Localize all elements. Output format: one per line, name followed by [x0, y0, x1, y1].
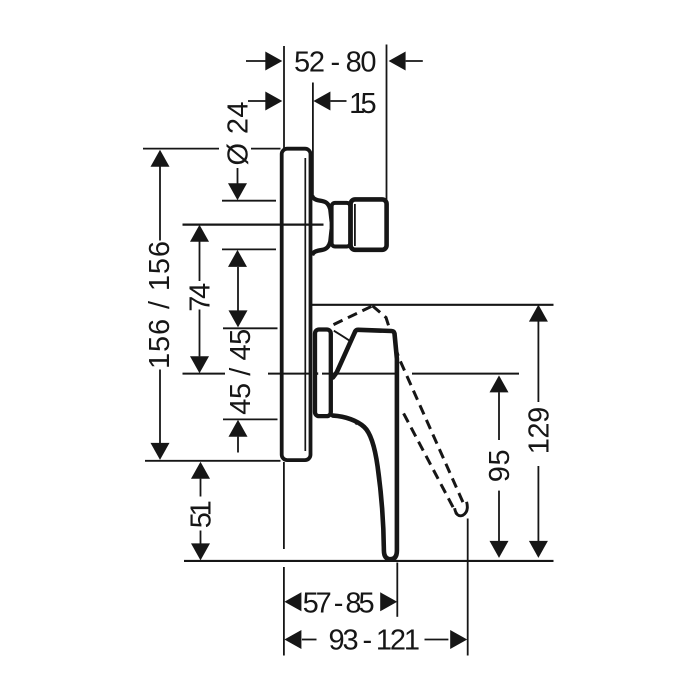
svg-text:74: 74 — [184, 283, 216, 312]
svg-text:45 / 45: 45 / 45 — [225, 329, 257, 415]
svg-text:93 - 121: 93 - 121 — [329, 625, 421, 657]
svg-text:52 - 80: 52 - 80 — [294, 46, 377, 78]
svg-text:156 / 156: 156 / 156 — [144, 241, 176, 369]
svg-text:Ø 24: Ø 24 — [223, 102, 255, 166]
svg-text:95: 95 — [484, 449, 516, 482]
svg-text:15: 15 — [349, 88, 377, 120]
svg-text:57 - 85: 57 - 85 — [303, 587, 375, 619]
svg-text:51: 51 — [185, 500, 217, 528]
svg-text:129: 129 — [523, 407, 555, 455]
